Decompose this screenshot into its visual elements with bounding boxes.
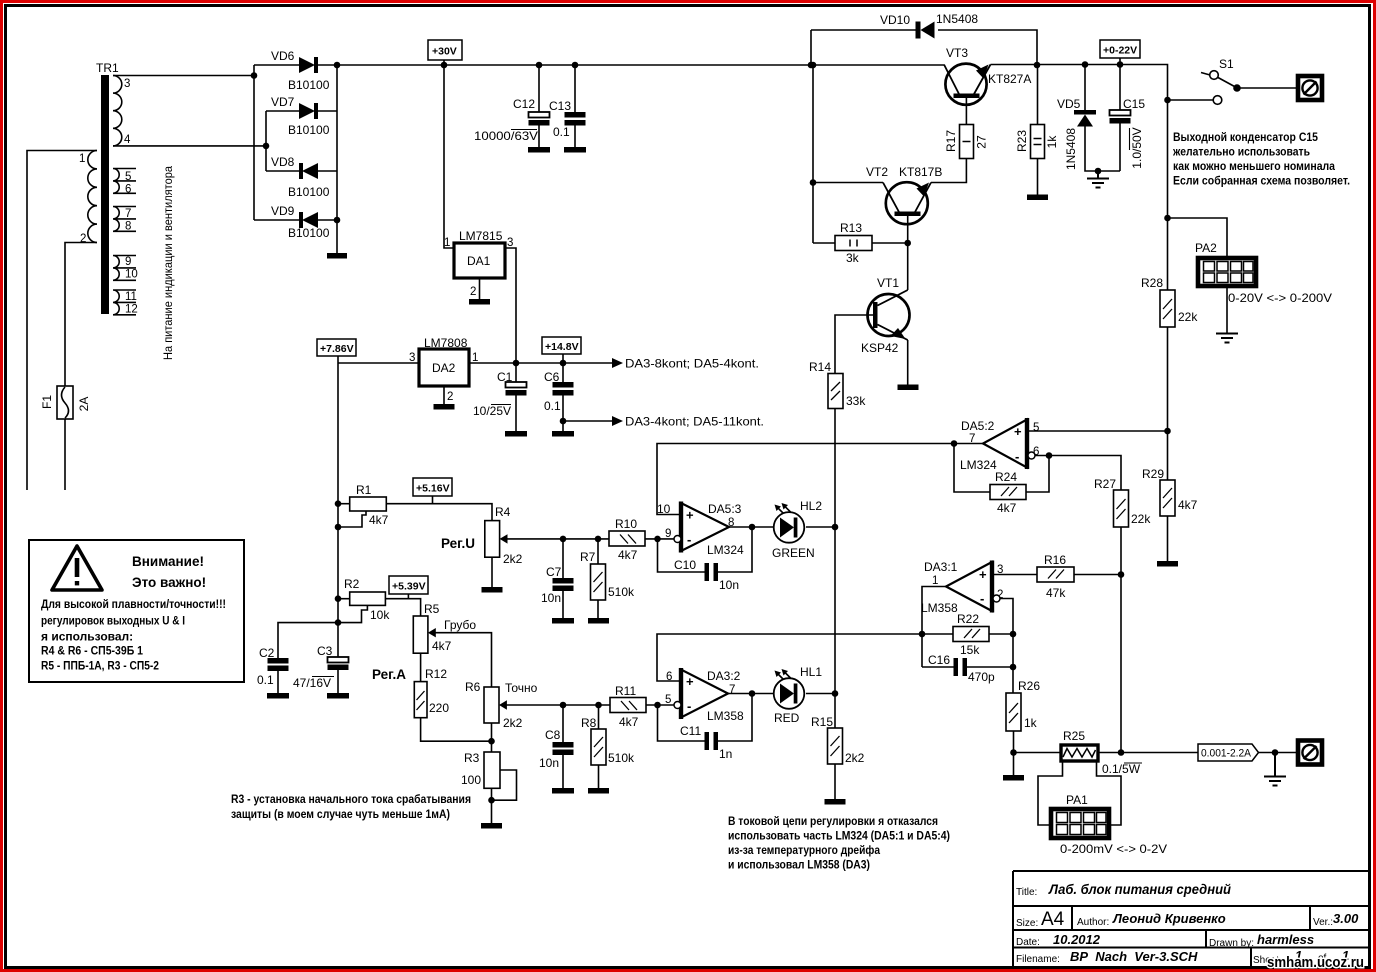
svg-text:10.2012: 10.2012: [1053, 932, 1101, 947]
svg-text:Грубо: Грубо: [444, 618, 476, 632]
svg-text:100: 100: [461, 773, 481, 787]
svg-text:0.1/5W: 0.1/5W: [1102, 762, 1141, 776]
svg-text:+30V: +30V: [432, 46, 457, 58]
node DA3:2 output / C11: [749, 690, 756, 697]
svg-text:VD5: VD5: [1057, 97, 1081, 111]
svg-text:Drawn by:: Drawn by:: [1209, 938, 1254, 949]
svg-text:3: 3: [997, 564, 1003, 576]
resistor R14 33k: [809, 360, 866, 409]
capacitor C6 0.1: [544, 363, 574, 437]
wire HL1 to R15 rail: [806, 693, 835, 695]
svg-text:VT1: VT1: [877, 276, 899, 290]
svg-text:C6: C6: [544, 370, 560, 384]
svg-text:VD9: VD9: [271, 204, 295, 218]
meter PA2 display: [1195, 241, 1332, 305]
node +14.8V label box: [542, 337, 581, 363]
output terminal jack (+): [1298, 76, 1322, 100]
meter PA1 display: [1051, 793, 1167, 856]
node +5.39V label box: [389, 576, 428, 599]
svg-text:+14.8V: +14.8V: [545, 341, 579, 353]
wire R12 bottom to R6 bottom: [421, 718, 492, 742]
svg-text:3: 3: [409, 352, 415, 364]
svg-text:PA1: PA1: [1066, 793, 1088, 807]
svg-text:4: 4: [124, 134, 131, 146]
resistor R22 15k: [922, 612, 1013, 657]
svg-text:Title:: Title:: [1016, 887, 1037, 898]
svg-text:11: 11: [125, 291, 137, 303]
svg-text:9: 9: [665, 528, 671, 540]
capacitor C12 10000/63V: [474, 62, 550, 153]
svg-text:22k: 22k: [1178, 310, 1198, 324]
wire R17 to VT2 emitter: [931, 159, 966, 183]
svg-text:B10100: B10100: [288, 123, 330, 137]
transistor VT2 KT817B: [866, 165, 942, 224]
svg-text:47k: 47k: [1046, 586, 1066, 600]
resistor R13 3k: [813, 221, 908, 265]
wire DA5:2 -input to R27: [1035, 456, 1121, 491]
wire DA2 pin1 +14.8V rail: [469, 362, 612, 364]
svg-text:Это важно!: Это важно!: [132, 575, 206, 590]
node PA2 branch: [1164, 215, 1171, 222]
node DA5:2 output / R24: [951, 440, 958, 447]
svg-text:Выходной конденсатор C15: Выходной конденсатор C15: [1173, 130, 1318, 144]
svg-text:3.00: 3.00: [1333, 911, 1359, 926]
node R10/C10 junction: [654, 536, 661, 543]
svg-text:Author:: Author:: [1077, 917, 1109, 928]
title block: [1013, 871, 1369, 966]
svg-text:R3 - установка начального тока: R3 - установка начального тока срабатыва…: [231, 792, 471, 806]
wire LED cathode rail down: [834, 527, 836, 728]
svg-text:GREEN: GREEN: [772, 546, 815, 560]
svg-text:KSP42: KSP42: [861, 341, 899, 355]
svg-text:как можно меньшего номинала: как можно меньшего номинала: [1173, 159, 1335, 173]
capacitor C8 10n: [539, 705, 574, 794]
svg-text:-: -: [1015, 449, 1019, 464]
svg-text:Точно: Точно: [505, 681, 538, 695]
svg-text:R4: R4: [495, 505, 511, 519]
note: output capacitor C15 text: [1172, 130, 1350, 188]
op-amp DA3:1 LM358: [921, 560, 1003, 615]
svg-text:R13: R13: [840, 221, 862, 235]
svg-text:10n: 10n: [719, 578, 739, 592]
diode VD7 B10100: [266, 95, 337, 137]
svg-text:RED: RED: [774, 711, 800, 725]
wire R2 to R5 top: [385, 599, 420, 616]
node R22 right: [1010, 631, 1017, 638]
svg-text:+: +: [686, 674, 694, 689]
svg-text:10n: 10n: [539, 756, 559, 770]
svg-text:R5: R5: [424, 602, 440, 616]
svg-text:2: 2: [470, 286, 476, 298]
node HL1 / R15 rail: [832, 690, 839, 697]
svg-text:Лаб. блок питания средний: Лаб. блок питания средний: [1048, 881, 1231, 897]
svg-text:R16: R16: [1044, 553, 1066, 567]
ground symbol at output: [1264, 753, 1286, 786]
node R2 wiper / C2 / C3: [335, 619, 342, 626]
wire DA5:3 output to HL2: [729, 526, 774, 528]
svg-text:HL1: HL1: [800, 665, 822, 679]
wire VD10 bypass loop: [811, 30, 1037, 65]
svg-text:DA3-8kont; DA5-4kont.: DA3-8kont; DA5-4kont.: [625, 357, 759, 371]
wire +7.86V vertical to divider chain: [337, 363, 339, 657]
resistor R23 1k: [1015, 65, 1059, 200]
svg-text:4k7: 4k7: [997, 501, 1017, 515]
svg-text:C12: C12: [513, 97, 535, 111]
node C7 tap: [560, 536, 567, 543]
svg-text:KT827A: KT827A: [988, 72, 1031, 86]
svg-text:Рег.А: Рег.А: [372, 667, 406, 682]
op-amp DA5:2 LM324: [960, 418, 1039, 472]
svg-text:R15: R15: [811, 715, 833, 729]
svg-text:1k: 1k: [1024, 716, 1038, 730]
svg-text:1.0/50V: 1.0/50V: [1130, 127, 1144, 168]
svg-text:R14: R14: [809, 360, 831, 374]
svg-text:R24: R24: [995, 470, 1017, 484]
svg-text:R7: R7: [580, 550, 596, 564]
wire VT3 base to R17: [965, 98, 967, 125]
wire output rail to right: [1037, 65, 1168, 562]
svg-text:R12: R12: [425, 667, 447, 681]
svg-text:LM358: LM358: [921, 601, 958, 615]
svg-text:+0-22V: +0-22V: [1103, 45, 1137, 57]
node output minus junction: [1272, 749, 1279, 756]
svg-text:R22: R22: [957, 612, 979, 626]
svg-text:KT817B: KT817B: [899, 165, 942, 179]
wire VT1 base to R14: [835, 315, 873, 374]
node VT2 collector junction: [810, 179, 817, 186]
diode VD8 B10100: [266, 155, 337, 199]
svg-text:5: 5: [125, 171, 131, 183]
svg-text:F1: F1: [40, 395, 54, 409]
svg-text:C15: C15: [1123, 97, 1145, 111]
resistor R7 510k: [580, 539, 635, 624]
svg-text:DA3:2: DA3:2: [707, 669, 741, 683]
potentiometer R5 4k7 Grubo: [413, 602, 476, 653]
svg-text:желательно использовать: желательно использовать: [1172, 145, 1310, 159]
resistor R25 0.1/5W shunt: [1061, 729, 1142, 776]
node C6/arrow junction: [560, 418, 567, 425]
node R28/R29 divider tap: [1164, 428, 1171, 435]
svg-text:harmless: harmless: [1257, 932, 1314, 947]
svg-text:DA3-4kont; DA5-11kont.: DA3-4kont; DA5-11kont.: [625, 415, 764, 429]
svg-text:47/16V: 47/16V: [293, 676, 331, 690]
capacitor C15 1.0/50V: [1110, 65, 1146, 172]
svg-text:LM7815: LM7815: [459, 229, 503, 243]
svg-text:1N5408: 1N5408: [936, 12, 978, 26]
wire R6 wiper to R11/C8/R8: [507, 704, 611, 706]
svg-text:R8: R8: [581, 716, 597, 730]
wire bridge left vertical (pin3 node): [253, 65, 255, 220]
svg-text:smham.ucoz.ru: smham.ucoz.ru: [1267, 954, 1364, 971]
svg-text:1: 1: [932, 575, 938, 587]
node pin3/VD6 junction: [251, 72, 258, 79]
svg-text:и использовал LM358 (DA3): и использовал LM358 (DA3): [728, 858, 870, 872]
node R22 left / DA3:1 output: [919, 631, 926, 638]
node +0-22V label box: [1100, 40, 1140, 65]
node arrow DA3-4kont; DA5-11kont: [612, 415, 764, 429]
svg-text:-: -: [980, 591, 984, 606]
node HL2 / R14 / R15 rail: [832, 524, 839, 531]
resistor R26 1k: [1006, 679, 1040, 731]
svg-text:4k7: 4k7: [369, 513, 389, 527]
wire HL2 to R15 rail: [806, 526, 835, 528]
wire R26 down to ground: [1013, 731, 1015, 775]
svg-text:C10: C10: [674, 558, 696, 572]
diode VD5 1N5408: [1057, 65, 1120, 172]
svg-text:1n: 1n: [719, 747, 732, 761]
svg-text:VD6: VD6: [271, 49, 295, 63]
svg-text:B10100: B10100: [288, 185, 330, 199]
node R26 / R25 junction: [1010, 749, 1017, 756]
node C8 tap: [560, 702, 567, 709]
wire DA1 pin3 to +14.8V rail and C1: [505, 248, 516, 382]
svg-text:4k7: 4k7: [432, 639, 452, 653]
svg-text:C7: C7: [546, 565, 562, 579]
node R1 wiper: [335, 524, 342, 531]
svg-text:R29: R29: [1142, 467, 1164, 481]
svg-text:0.1: 0.1: [544, 399, 561, 413]
svg-text:TR1: TR1: [96, 61, 119, 75]
fuse F1 2A: [57, 386, 73, 419]
ground bar below bridge: [327, 253, 347, 259]
node C6 taps rail: [560, 360, 567, 367]
svg-text:27: 27: [975, 135, 989, 149]
note: LM358 usage text: [728, 814, 950, 872]
svg-text:510k: 510k: [608, 751, 635, 765]
svg-text:A4: A4: [1041, 909, 1065, 930]
node R1 left: [335, 500, 342, 507]
wire R4 wiper to R10/C7/R7: [507, 538, 609, 540]
resistor R17 27: [944, 125, 989, 159]
svg-text:Date:: Date:: [1016, 937, 1040, 948]
svg-text:DA2: DA2: [432, 361, 456, 375]
resistor R11 4k7: [610, 684, 674, 729]
node DA5:2 -input / R24: [1046, 452, 1053, 459]
diode VD6 B10100: [254, 49, 337, 92]
svg-text:4k7: 4k7: [618, 548, 638, 562]
svg-text:PA2: PA2: [1195, 241, 1217, 255]
wire DA3:1 -input to feedback: [1000, 599, 1013, 694]
LED HL1 RED: [774, 665, 823, 725]
svg-text:C16: C16: [928, 653, 950, 667]
svg-text:470p: 470p: [968, 670, 995, 684]
node DA5:3 output / C10: [749, 524, 756, 531]
svg-text:На питание индикации и вентиля: На питание индикации и вентилятора: [161, 166, 175, 360]
wire DA3:1 output to R22 node: [922, 587, 946, 635]
svg-text:В токовой цепи регулировки я о: В токовой цепи регулировки я отказался: [728, 814, 938, 828]
svg-text:15k: 15k: [960, 643, 980, 657]
capacitor C10 10n feedback: [658, 527, 753, 592]
svg-text:DA5:2: DA5:2: [961, 419, 995, 433]
svg-text:+: +: [1014, 424, 1022, 439]
node R25 right / R27 vertical: [1118, 749, 1125, 756]
potentiometer R3 100: [461, 751, 517, 829]
capacitor C11 1n feedback: [658, 694, 753, 762]
svg-text:10k: 10k: [370, 608, 390, 622]
svg-text:33k: 33k: [846, 394, 866, 408]
svg-text:+: +: [979, 567, 987, 582]
node C15 taps rail: [1117, 61, 1124, 68]
svg-text:Для высокой плавности/точности: Для высокой плавности/точности!!!: [41, 597, 226, 611]
svg-text:R6: R6: [465, 680, 481, 694]
wire PA1 parallel connection: [1038, 761, 1121, 825]
svg-text:VD7: VD7: [271, 95, 295, 109]
svg-text:HL2: HL2: [800, 499, 822, 513]
svg-text:DA1: DA1: [467, 254, 491, 268]
voltage regulator DA2 LM7808: [409, 336, 478, 410]
capacitor C3 47/16V: [293, 644, 349, 699]
svg-text:1k: 1k: [1045, 135, 1059, 149]
capacitor C16 470p: [922, 634, 1013, 684]
capacitor C2 0.1: [257, 623, 338, 699]
node VD10 left taps +30V rail: [808, 62, 815, 69]
resistor R10 4k7: [609, 517, 674, 562]
wire to DA3-4kont arrow: [563, 420, 612, 422]
svg-text:220: 220: [429, 701, 449, 715]
svg-text:7: 7: [125, 208, 131, 220]
node pin4/VD7 junction: [263, 143, 270, 150]
svg-text:R11: R11: [615, 684, 636, 698]
note: R3 initial current text: [231, 792, 471, 821]
svg-text:10000/63V: 10000/63V: [474, 129, 538, 143]
node current range flag 0.001-2.2A: [1198, 744, 1259, 761]
switch S1: [1164, 57, 1296, 104]
ground symbol below PA2: [1216, 334, 1238, 343]
svg-text:-: -: [687, 532, 691, 547]
wire R5 wiper to R6 top: [436, 633, 492, 687]
transistor VT3 KT827A: [944, 46, 1031, 105]
wire R27 down to R25 node: [1120, 527, 1122, 753]
svg-text:R2: R2: [344, 577, 360, 591]
wire VT2 collector rail from +30V: [813, 65, 883, 243]
wire TR1 pin4 to bridge: [113, 145, 266, 147]
node VD8/VD9 anodes: [334, 217, 341, 224]
svg-text:защиты (в моем случае чуть мен: защиты (в моем случае чуть меньше 1мА): [231, 807, 450, 821]
wire R1 to R4 top: [386, 504, 492, 521]
transformer TR1: [88, 75, 136, 315]
wire TR1 pin3 to bridge: [113, 75, 254, 77]
svg-text:2A: 2A: [77, 397, 91, 412]
svg-text:9: 9: [125, 256, 131, 268]
resistor R29 4k7: [1142, 467, 1198, 567]
wire TR1 pin1 to mains: [27, 151, 97, 491]
resistor R27 22k: [1094, 477, 1151, 527]
svg-text:R3: R3: [464, 751, 480, 765]
resistor R15 2k2: [811, 715, 865, 805]
potentiometer R1 4k7: [338, 483, 389, 527]
svg-text:R4 & R6 - СП5-39Б 1: R4 & R6 - СП5-39Б 1: [41, 644, 143, 658]
resistor R16 47k: [992, 553, 1121, 600]
wire VT2 base down: [907, 216, 909, 243]
capacitor C7 10n: [541, 539, 574, 624]
svg-text:3k: 3k: [846, 251, 860, 265]
resistor R12 220: [372, 653, 449, 717]
output terminal jack (-): [1298, 741, 1322, 765]
svg-text:C2: C2: [259, 646, 275, 660]
node arrow DA3-8kont; DA5-4kont: [612, 357, 759, 371]
wire R25 row: [1014, 752, 1299, 754]
wire F1 down: [64, 419, 66, 490]
wire DA5:2 +input to R28/R29 tap: [1027, 430, 1168, 432]
op-amp DA5:3 LM324: [657, 502, 744, 558]
op-amp DA3:2 LM358: [665, 668, 744, 723]
potentiometer R6 2k2 Tochno: [465, 680, 538, 752]
svg-text:VT2: VT2: [866, 165, 888, 179]
resistor R28 22k: [1141, 276, 1198, 327]
transistor VT1 KSP42: [861, 243, 919, 390]
resistor R24 4k7 feedback: [954, 444, 1049, 516]
svg-text:R28: R28: [1141, 276, 1163, 290]
svg-text:LM324: LM324: [707, 543, 744, 557]
svg-text:Если собранная схема позволяет: Если собранная схема позволяет.: [1173, 174, 1350, 188]
svg-text:C8: C8: [545, 728, 561, 742]
node VD5 taps rail: [1082, 61, 1089, 68]
svg-text:B10100: B10100: [288, 78, 330, 92]
svg-text:C13: C13: [549, 99, 571, 113]
svg-text:22k: 22k: [1131, 512, 1151, 526]
node VD5/C15 ground junction: [1095, 168, 1102, 175]
svg-text:BP Nach Ver-3.SCH: BP Nach Ver-3.SCH: [1070, 949, 1198, 964]
svg-text:VD10: VD10: [880, 13, 910, 27]
svg-text:Внимание!: Внимание!: [132, 554, 204, 569]
svg-text:LM7808: LM7808: [424, 336, 468, 350]
svg-text:DA3:1: DA3:1: [924, 560, 958, 574]
warning box: [29, 540, 244, 682]
svg-text:10/25V: 10/25V: [473, 404, 511, 418]
node +7.86V label box: [317, 339, 356, 363]
voltage regulator DA1 LM7815: [444, 229, 513, 305]
wire R14 down across to LED node: [834, 409, 836, 528]
wire to PA2: [1168, 218, 1228, 256]
svg-text:6: 6: [125, 184, 131, 196]
resistor R8 510k: [581, 705, 635, 794]
node VT2 base / R13 / VT1 collector: [904, 240, 911, 247]
svg-text:2k2: 2k2: [503, 716, 523, 730]
svg-text:0.1: 0.1: [257, 673, 274, 687]
svg-text:R10: R10: [615, 517, 637, 531]
svg-text:0.001-2.2A: 0.001-2.2A: [1201, 748, 1252, 760]
svg-text:Ver.:: Ver.:: [1313, 917, 1333, 928]
potentiometer R2 10k: [338, 577, 390, 623]
node +30V label box: [428, 40, 462, 68]
svg-text:S1: S1: [1219, 57, 1234, 71]
wire bridge right vertical to ground: [336, 65, 338, 253]
ground symbol below VD5: [1087, 171, 1109, 188]
svg-text:2: 2: [447, 391, 453, 403]
svg-text:0-20V <-> 0-200V: 0-20V <-> 0-200V: [1228, 291, 1332, 305]
svg-text:12: 12: [125, 304, 138, 316]
svg-text:-: -: [687, 699, 691, 714]
svg-text:R1: R1: [356, 483, 372, 497]
svg-text:0.1: 0.1: [553, 125, 570, 139]
svg-text:VT3: VT3: [946, 46, 968, 60]
wire PA2 to ground: [1226, 286, 1228, 333]
node VD6/VD7 cathodes: [334, 62, 341, 69]
wire DA3:2 output to HL1: [728, 693, 774, 695]
svg-text:1: 1: [79, 153, 85, 165]
svg-text:2k2: 2k2: [503, 552, 523, 566]
svg-text:3: 3: [124, 78, 130, 90]
svg-text:использовать часть LM324 (DA5:: использовать часть LM324 (DA5:1 и DA5:4): [728, 829, 950, 843]
node R16/R27 junction: [1118, 571, 1125, 578]
diode VD9 B10100: [254, 204, 337, 240]
svg-text:C1: C1: [497, 370, 513, 384]
svg-text:1: 1: [444, 237, 450, 249]
svg-text:регулировок выходных U & I: регулировок выходных U & I: [41, 614, 185, 628]
svg-text:R17: R17: [944, 130, 958, 152]
svg-text:+: +: [686, 508, 694, 523]
node VT3 emitter / VD10 / R23: [1034, 62, 1041, 69]
